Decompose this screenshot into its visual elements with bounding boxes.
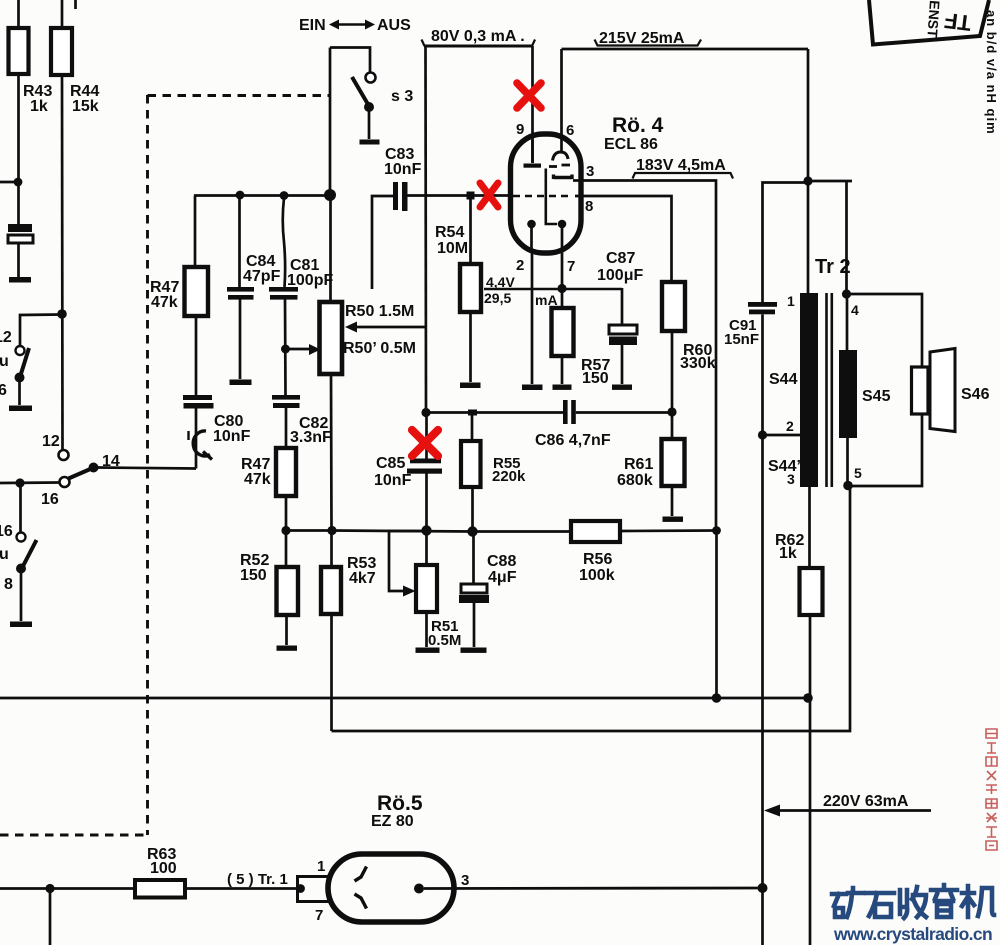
node junction R53 top: [327, 526, 336, 535]
capacitor C91 plates: [748, 302, 777, 307]
ground below R57: [553, 385, 572, 390]
svg-text:7: 7: [315, 907, 323, 924]
wire pin 9 lead (triode anode): [531, 46, 534, 163]
capacitor C87 plates: [609, 325, 637, 334]
ground below R54: [460, 383, 481, 389]
pentode cathode dot: [558, 220, 567, 229]
glyph yin: [931, 885, 957, 901]
svg-text:R50 1.5M: R50 1.5M: [345, 303, 414, 320]
svg-text:AUS: AUS: [377, 17, 411, 34]
svg-text:15nF: 15nF: [724, 331, 759, 348]
EZ80 anode marks: [355, 867, 367, 882]
wire R44 top lead: [61, 0, 64, 29]
wire R52 top lead: [285, 531, 288, 567]
svg-text:100μF: 100μF: [597, 267, 643, 284]
switch s3 blade: [352, 77, 369, 106]
tube Rö.4 envelope: [511, 134, 582, 253]
wire down from 16 feed junction: [19, 484, 22, 533]
svg-text:10M: 10M: [437, 240, 468, 257]
node junction on R44 line: [57, 309, 67, 319]
wire EZ80 input line: [0, 887, 298, 890]
node blade dot 14: [89, 463, 99, 473]
switch blade 14-16: [69, 469, 92, 479]
svg-text:2: 2: [786, 418, 794, 434]
switch s3 contact circle: [366, 73, 376, 83]
svg-text:EIN: EIN: [299, 17, 326, 34]
svg-text:16: 16: [41, 491, 59, 508]
svg-text:Tr 2: Tr 2: [815, 256, 851, 278]
svg-text:S46: S46: [961, 386, 990, 403]
wire R53 top lead: [330, 531, 333, 567]
svg-text:12: 12: [0, 329, 12, 346]
wire pin 7 lead: [561, 224, 564, 288]
svg-text:S44’: S44’: [768, 458, 801, 475]
wire EZ80 cathode out: [424, 887, 763, 890]
wire feedback bus y731: [332, 487, 851, 731]
node blade dot: [15, 373, 25, 383]
svg-text:4μF: 4μF: [488, 569, 517, 586]
node junction C81/C82/pot tap: [281, 345, 290, 354]
pentode anode bar: [554, 175, 573, 180]
svg-text:6: 6: [0, 382, 7, 399]
wire R55 bottom lead: [471, 487, 474, 532]
svg-text:47k: 47k: [244, 471, 271, 488]
node junction S45 pin5: [843, 481, 853, 491]
wire R44 down to terminal 12: [61, 75, 64, 450]
wire R51 top lead: [425, 531, 428, 565]
wire S45 leads: [846, 294, 849, 350]
node junction R55/C88/R56: [467, 526, 477, 536]
svg-text:7: 7: [567, 258, 575, 275]
svg-text:R61: R61: [624, 456, 653, 473]
svg-text:4k7: 4k7: [349, 570, 376, 587]
wire R57 top lead: [561, 289, 564, 308]
svg-text:10nF: 10nF: [374, 472, 412, 489]
svg-text:3: 3: [586, 163, 594, 180]
node junction on 16 feed: [15, 478, 24, 487]
svg-text:47pF: 47pF: [243, 268, 281, 285]
svg-text:S45: S45: [862, 388, 891, 405]
internal g3-cathode link: [546, 169, 557, 225]
svg-text:4: 4: [851, 302, 859, 318]
ground below s3: [360, 140, 380, 145]
arrowheads EIN/AUS: [329, 20, 375, 30]
183V label underline: [633, 173, 734, 179]
wire band-switch 16 feed: [0, 481, 60, 484]
resistor R43: [9, 28, 29, 74]
svg-text:8: 8: [585, 198, 593, 215]
svg-text:C85: C85: [376, 455, 405, 472]
node dot heater feed: [296, 884, 305, 893]
wire C83 to tube grid: [408, 194, 512, 197]
wire R43 top lead: [17, 0, 20, 29]
node junction tap2: [758, 430, 767, 439]
node s3 blade dot: [364, 102, 374, 112]
ground below R51: [416, 648, 440, 653]
wire junction to R56: [473, 530, 572, 533]
wire C85 top lead: [425, 412, 428, 459]
svg-text:S44: S44: [769, 371, 798, 388]
ground below C87: [612, 385, 632, 390]
node junction R47/R52: [281, 526, 290, 535]
pentode screen hook: [553, 152, 569, 161]
red X mark 3: [412, 430, 438, 456]
svg-text:2: 2: [516, 257, 524, 274]
svg-text:100pF: 100pF: [287, 272, 333, 289]
svg-text:47k: 47k: [151, 294, 178, 311]
red X mark 2: [480, 183, 498, 207]
triode cathode dot: [527, 220, 536, 229]
svg-text:183V 4,5mA: 183V 4,5mA: [636, 157, 726, 174]
svg-text:215V 25mA: 215V 25mA: [599, 30, 685, 47]
wire s3 to ground: [368, 111, 371, 139]
wire R53 bottom to feedback bus: [330, 614, 333, 731]
node junction 215V at transformer: [803, 176, 812, 185]
wire C81 to C82: [284, 299, 287, 395]
svg-text:ECL 86: ECL 86: [604, 136, 658, 153]
wire 220V pointer: [777, 809, 931, 812]
svg-text:1k: 1k: [30, 98, 48, 115]
triode grid dashed: [513, 195, 573, 198]
wire ground bus y698: [0, 697, 808, 700]
arrowhead 220V: [764, 805, 780, 817]
logo crystalradio glyphs: [832, 885, 994, 918]
svg-text:www.crystalradio.cn: www.crystalradio.cn: [833, 924, 992, 944]
svg-text:R50’ 0.5M: R50’ 0.5M: [343, 340, 416, 357]
svg-text:3.3nF: 3.3nF: [290, 429, 332, 446]
transformer Tr2 core: [825, 293, 828, 487]
svg-text:150: 150: [582, 370, 609, 387]
arrowhead into pot left: [309, 344, 321, 355]
wire B+ down to primary: [807, 49, 810, 294]
wire C84 bottom lead: [239, 299, 242, 379]
potentiometer R51: [416, 565, 437, 612]
resistor R55: [461, 441, 481, 487]
node blade dot lower: [16, 564, 26, 574]
svg-text:10nF: 10nF: [384, 161, 422, 178]
wire R51 loop: [389, 531, 427, 591]
svg-text:TF: TF: [943, 8, 973, 36]
glyph ji: [962, 886, 974, 917]
svg-text:3: 3: [461, 872, 469, 889]
resistor R52: [277, 567, 299, 615]
svg-text:C88: C88: [487, 553, 516, 570]
wire R62 bottom lead: [809, 615, 812, 698]
node junction 80V line / C85 / R55 wire: [421, 408, 430, 417]
wire dashed mechanical link top: [148, 94, 331, 97]
wire stub to left edge: [0, 181, 18, 184]
node junction anode column R56: [712, 526, 721, 535]
capacitor C84 plates: [227, 287, 254, 292]
node junction C85/R51: [421, 525, 431, 535]
node dot C81 tap: [280, 191, 289, 200]
node square junction R54 tap: [467, 192, 475, 200]
svg-text:680k: 680k: [617, 472, 653, 489]
svg-text:Rö. 4: Rö. 4: [612, 114, 664, 137]
wire heater line down: [809, 698, 812, 945]
triode anode bar: [531, 140, 534, 163]
resistor R57: [552, 308, 574, 356]
wire dashed mechanical link bottom: [0, 834, 148, 837]
switch s3 top wire: [330, 48, 370, 73]
wire C85 bottom lead: [425, 474, 428, 532]
svg-text:mA: mA: [535, 292, 558, 308]
speaker S46 cone: [930, 349, 955, 432]
wire C88 top lead: [472, 532, 475, 584]
wire branch to wave switch: [20, 315, 61, 346]
wire 4.4V measuring line to C87 corner: [484, 288, 622, 290]
wire pot top lead: [329, 195, 332, 302]
svg-text:29,5: 29,5: [484, 290, 511, 306]
wire pot bottom lead: [330, 374, 333, 531]
capacitor C80 plates: [183, 395, 212, 400]
wire pot tap: [286, 348, 317, 351]
wire bottom left drop: [49, 889, 52, 945]
terminal circle 12: [59, 450, 69, 460]
wire R55 top lead: [471, 413, 474, 441]
ground below R61: [663, 517, 684, 522]
resistor R61: [662, 439, 685, 486]
node junction R60/R61/C86: [667, 407, 676, 416]
glyph shou: [900, 890, 907, 918]
wire R60 bottom lead: [671, 331, 674, 439]
svg-text:1: 1: [787, 293, 795, 309]
node junction S45 top: [842, 289, 851, 298]
wire 14 to C80 bottom: [97, 468, 196, 469]
resistor R47 first: [185, 267, 209, 316]
wire R47 to C80: [195, 316, 198, 395]
stamp box top right: [869, 0, 989, 45]
EZ80 cathode dot: [414, 884, 424, 894]
svg-text:220k: 220k: [492, 468, 526, 485]
resistor R54: [460, 264, 481, 312]
speaker S46 coil box: [912, 367, 929, 414]
node junction at R43 lead: [14, 178, 23, 187]
wire pin 2 lead: [530, 224, 533, 253]
svg-text:16: 16: [0, 523, 13, 540]
ground below lower-left switch: [10, 622, 32, 628]
svg-text:1k: 1k: [779, 545, 797, 562]
wire anode column to bus: [715, 531, 718, 699]
svg-text:15k: 15k: [72, 98, 99, 115]
glyph shi: [866, 893, 894, 916]
wire B+ rectified line down: [761, 435, 764, 888]
wire C80 bottom lead: [195, 408, 198, 469]
capacitor C85 plates: [410, 459, 441, 464]
capacitor C83 plates: [393, 182, 398, 210]
wire grid2 row link: [332, 531, 473, 532]
node junction bus/R62: [803, 693, 813, 703]
svg-text:220V 63mA: 220V 63mA: [823, 793, 909, 810]
wire to ground: [20, 572, 23, 621]
capacitor C86 plates: [563, 400, 568, 424]
capacitor C81 plates: [269, 287, 298, 292]
wire dashed mechanical link vertical: [146, 95, 149, 835]
svg-text:14: 14: [102, 453, 120, 470]
wire C88 bottom lead: [473, 603, 476, 647]
arrowhead wiper: [345, 322, 357, 333]
wire tap2 to primary: [763, 434, 801, 437]
svg-text:100k: 100k: [579, 567, 615, 584]
switch contact circle (upper left): [16, 346, 25, 355]
svg-text:80V 0,3 mA .: 80V 0,3 mA .: [431, 28, 525, 45]
svg-text:0.5M: 0.5M: [428, 632, 461, 649]
switch blade upper-left: [20, 348, 29, 377]
wire C84 top lead: [238, 196, 241, 287]
wire C91 bottom to tap 2: [761, 315, 764, 436]
svg-text:C87: C87: [606, 250, 635, 267]
svg-text:ENST: ENST: [924, 0, 943, 39]
transformer Tr2 secondary winding S45: [839, 350, 857, 438]
svg-text:4,4V: 4,4V: [486, 274, 515, 290]
wire R54 top lead: [469, 199, 472, 264]
ground below upper-left switch: [9, 406, 32, 412]
svg-text:330k: 330k: [680, 355, 716, 372]
wire C83 left stub down: [372, 196, 393, 289]
wire C87 bottom lead: [621, 345, 624, 384]
arrowhead into R51: [403, 586, 416, 597]
svg-text:R56: R56: [583, 551, 612, 568]
resistor R62: [800, 568, 823, 615]
svg-text:u: u: [0, 546, 9, 563]
svg-text:EZ 80: EZ 80: [371, 813, 414, 830]
wire R52 bottom lead: [285, 615, 288, 645]
node junction EZ80 cathode line: [758, 883, 768, 893]
svg-text:C86 4,7nF: C86 4,7nF: [535, 432, 611, 449]
terminal circle 16: [60, 477, 70, 487]
wire C86 left: [426, 411, 563, 414]
wire rail corner down to R47: [194, 196, 197, 268]
svg-text:1: 1: [317, 858, 325, 875]
wire anode to C91 branch: [763, 183, 809, 303]
svg-text:an b/d v/a nH qim: an b/d v/a nH qim: [984, 10, 999, 135]
wire cathode link: [286, 529, 332, 532]
215V label underline: [595, 40, 702, 46]
resistor R56: [571, 521, 620, 542]
wire R54 bottom lead: [469, 312, 472, 382]
resistor R53: [321, 567, 341, 614]
ground below C84: [230, 380, 252, 386]
wire R47 second bottom: [285, 496, 288, 531]
node dot C84 tap: [236, 191, 245, 200]
transformer Tr2 primary winding S44: [800, 293, 818, 487]
node square blob R55 tap: [468, 410, 477, 416]
potentiometer R50: [320, 302, 343, 374]
red X mark 1: [517, 83, 541, 108]
switch blade lower-left: [22, 540, 37, 568]
wire 80V rail: [424, 45, 533, 48]
wire pin 6 screen lead: [560, 49, 563, 152]
wire R56 to anode column: [620, 529, 717, 532]
switch contact circle (lower left): [17, 533, 26, 542]
wire R61 bottom lead: [671, 486, 674, 516]
capacitor C82 plates: [272, 395, 300, 400]
svg-text:( 5 ) Tr. 1: ( 5 ) Tr. 1: [227, 871, 288, 888]
node junction at bottom left: [45, 884, 54, 893]
ground below pin 2: [522, 385, 543, 391]
resistor R44: [51, 28, 72, 75]
wire 215V rail: [562, 48, 809, 51]
svg-text:R54: R54: [435, 224, 464, 241]
resistor R47 second: [276, 448, 296, 496]
ground below R52: [277, 646, 298, 651]
svg-text:6: 6: [566, 122, 574, 139]
node big junction at switch rail: [324, 189, 336, 201]
svg-text:5: 5: [854, 465, 862, 481]
wire R57 bottom lead: [561, 356, 564, 384]
ground below elco: [9, 277, 31, 283]
decorative hook on C80 lead: [193, 431, 212, 460]
svg-text:12: 12: [42, 433, 60, 450]
node junction pin7/R57/C87: [557, 284, 566, 293]
red vertical watermark glyphs: [986, 729, 997, 850]
svg-text:Rö.5: Rö.5: [377, 792, 423, 815]
wire grid rail y195: [194, 194, 330, 197]
wire S45 top feed: [808, 180, 852, 183]
wire C87 top lead: [621, 288, 624, 325]
wire to ground: [18, 381, 21, 405]
wire R62 top lead: [808, 487, 811, 568]
wire s3 branch down to grid rail: [329, 48, 332, 196]
svg-text:s 3: s 3: [391, 88, 413, 105]
wire R50 wiper: [353, 326, 426, 329]
tube Rö.5 envelope: [328, 854, 454, 922]
capacitor electrolytic (unlabeled) plates: [8, 224, 32, 232]
svg-text:u: u: [0, 353, 9, 370]
wire pin 8 to R60: [575, 196, 672, 282]
wire R43 bottom lead: [17, 74, 20, 224]
wire stray top fragment: [74, 0, 77, 9]
node junction bus/anode column: [712, 693, 722, 703]
wire R51 bottom lead: [425, 612, 428, 647]
wire C86 right: [576, 411, 672, 414]
glyph kuang: [832, 894, 846, 917]
pentode grid dashes: [549, 165, 557, 168]
svg-text:150: 150: [240, 567, 267, 584]
wire elco bottom lead: [17, 243, 20, 277]
svg-text:9: 9: [516, 121, 524, 138]
wire C81 top lead (wavy): [283, 198, 285, 287]
svg-text:10nF: 10nF: [213, 428, 251, 445]
wire C82 to R47 second: [285, 408, 288, 448]
heater connector box: [298, 877, 331, 902]
wire pin 3 anode to transformer column: [573, 181, 716, 531]
ground below C88: [461, 648, 487, 653]
svg-text:8: 8: [4, 576, 13, 593]
capacitor C88 plates: [461, 584, 487, 593]
svg-text:100: 100: [150, 860, 177, 877]
wire speaker bottom: [848, 414, 922, 486]
resistor R63: [135, 880, 185, 898]
wire 80V rail down to wiper and C85: [424, 46, 427, 412]
wire speaker top: [847, 294, 923, 367]
resistor R60: [662, 282, 685, 331]
